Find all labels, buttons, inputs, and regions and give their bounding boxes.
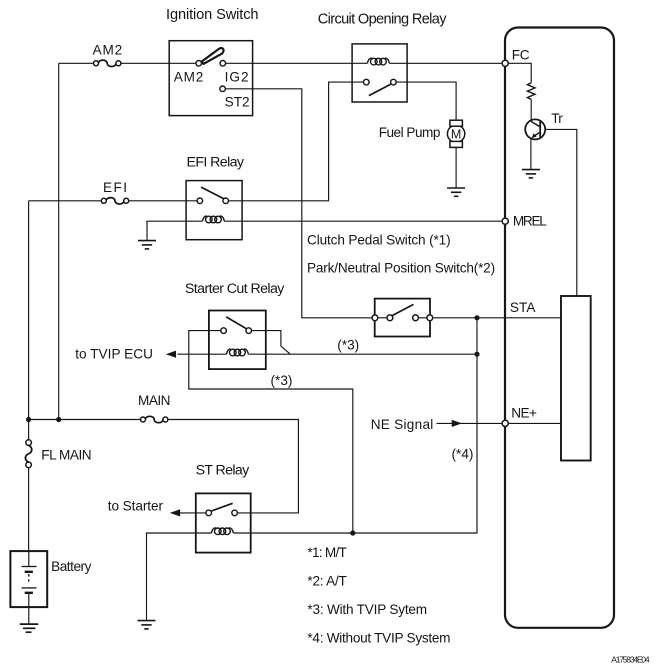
svg-text:*1: M/T: *1: M/T [307, 545, 346, 560]
contact ST2 [220, 86, 226, 92]
wire SCR switch left down and right (*3) [189, 331, 353, 533]
wire EFI left vertical down to MAIN [28, 201, 30, 420]
svg-text:Clutch Pedal Switch (*1): Clutch Pedal Switch (*1) [307, 233, 451, 248]
svg-text:Circuit Opening Relay: Circuit Opening Relay [318, 11, 447, 27]
ignition switch lever wedge [202, 48, 224, 64]
svg-text:FC: FC [512, 47, 530, 62]
wire coil to FC [389, 62, 502, 64]
SCR switch lever [226, 317, 246, 329]
junction dot ST coil [350, 530, 355, 535]
ST switch contacts [206, 510, 212, 516]
svg-text:ST Relay: ST Relay [196, 463, 251, 479]
wire EFI coil left to ground [147, 221, 202, 240]
clutch switch wires [378, 317, 387, 319]
junction dot STA [474, 315, 479, 320]
junction dots MAIN [26, 417, 31, 422]
ground battery [20, 623, 39, 625]
svg-text:*4: Without TVIP System: *4: Without TVIP System [307, 631, 450, 646]
svg-text:*3: With TVIP Sytem: *3: With TVIP Sytem [307, 602, 427, 617]
svg-text:(*4): (*4) [452, 446, 474, 461]
svg-text:Ignition Switch: Ignition Switch [166, 7, 259, 23]
wire ST coil left to ground [147, 533, 212, 620]
junction dot (*3) [474, 352, 479, 357]
fuel pump motor [447, 125, 464, 142]
resistor [527, 83, 535, 100]
wire FC to resistor [508, 63, 531, 83]
wire to Starter arrow [180, 512, 206, 514]
EFI switch contacts [197, 198, 203, 204]
svg-text:(*3): (*3) [337, 338, 359, 353]
svg-text:MAIN: MAIN [138, 393, 171, 408]
SCR coil [226, 349, 248, 356]
wire AM2 feed to fuse [59, 62, 94, 64]
fuse MAIN [141, 416, 168, 422]
svg-text:*2: A/T: *2: A/T [307, 574, 346, 589]
circuit opening relay coil [367, 58, 389, 65]
EFI switch lever [201, 187, 224, 199]
wire SCR coil right to STA junction [248, 353, 477, 355]
svg-text:Starter Cut Relay: Starter Cut Relay [185, 281, 285, 297]
COR switch contacts [364, 79, 370, 85]
wire NE+ to connector [508, 422, 561, 424]
battery plates [28, 551, 30, 566]
ST relay box [196, 493, 251, 552]
svg-text:Tr: Tr [551, 111, 563, 126]
wire ST2 right and down to clutch switch [225, 89, 372, 318]
wire NE signal to NE+ [437, 422, 503, 424]
svg-text:IG2: IG2 [225, 70, 249, 85]
node MREL [502, 218, 508, 224]
svg-text:NE+: NE+ [511, 406, 537, 421]
node FC [502, 60, 508, 66]
svg-text:Fuel Pump: Fuel Pump [379, 125, 441, 140]
svg-text:Park/Neutral Position Switch(*: Park/Neutral Position Switch(*2) [307, 261, 495, 276]
svg-text:FL MAIN: FL MAIN [41, 447, 91, 462]
ST switch lever [211, 503, 232, 511]
wire SCR coil line with to TVIP ECU arrow [178, 353, 227, 355]
contact AM2 [196, 61, 202, 67]
ground EFI relay [138, 241, 156, 249]
svg-text:MREL: MREL [513, 214, 547, 229]
node NE+ [502, 420, 508, 426]
svg-text:ST2: ST2 [225, 95, 250, 110]
wire transistor base right and down to connector [545, 129, 577, 296]
svg-text:EFI: EFI [103, 180, 127, 195]
wire transistor emitter to ground [530, 139, 532, 170]
wire SCR switch right jog down [252, 331, 291, 355]
svg-text:to Starter: to Starter [108, 498, 164, 513]
wire IG2 to circuit opening relay coil [226, 62, 368, 64]
clutch switch lever [391, 304, 413, 316]
wire fuse to ignition switch [121, 62, 196, 64]
svg-text:EFI Relay: EFI Relay [187, 154, 245, 170]
ground transistor [522, 170, 540, 178]
ST coil [211, 528, 233, 535]
ECU large rounded box [505, 28, 614, 628]
COR switch lever [369, 84, 391, 95]
SCR switch contacts [221, 328, 227, 334]
ignition switch box [169, 41, 252, 116]
wire FL MAIN to battery [28, 468, 30, 551]
transistor Tr [525, 119, 545, 139]
fuse AM2 [94, 60, 121, 66]
svg-text:(*3): (*3) [271, 373, 293, 388]
wire COR switch right to fuel pump [396, 82, 456, 120]
starter cut relay box [209, 311, 266, 370]
clutch switch contacts [372, 315, 378, 321]
ground ST relay [138, 621, 156, 629]
EFI relay box [186, 181, 242, 240]
svg-text:M: M [451, 127, 462, 141]
wire EFI coil right to MREL [224, 220, 502, 222]
wire STA junction vertical down to ST relay coil line [233, 318, 477, 533]
wire to EFI fuse [29, 200, 102, 202]
fuse EFI [101, 198, 128, 204]
svg-text:NE Signal: NE Signal [371, 417, 434, 432]
wire clutch switch to STA [433, 317, 561, 319]
battery box [10, 551, 47, 607]
wire motor to ground [455, 148, 457, 188]
svg-text:AM2: AM2 [174, 70, 204, 85]
circuit opening relay box [352, 44, 407, 102]
contact IG2 [220, 61, 226, 67]
wire MAIN fuse right and down to ST relay [167, 420, 298, 513]
wire left vertical AM2 down [58, 63, 60, 419]
svg-text:to TVIP ECU: to TVIP ECU [75, 347, 153, 362]
ground fuel pump [447, 188, 465, 196]
svg-text:STA: STA [510, 300, 536, 315]
svg-text:AM2: AM2 [93, 42, 123, 57]
wire resistor to transistor [530, 99, 532, 120]
wire COR switch left, down to EFI relay output [229, 82, 364, 201]
svg-text:A175834E04: A175834E04 [611, 655, 650, 665]
wire EFI fuse to relay [129, 200, 198, 202]
FL MAIN fusible link [28, 420, 30, 440]
ECU inner connector rectangle [561, 296, 591, 461]
svg-text:Battery: Battery [51, 559, 92, 574]
clutch / park-neutral switch box [375, 299, 430, 337]
EFI coil [202, 216, 224, 223]
MAIN line [29, 419, 142, 421]
